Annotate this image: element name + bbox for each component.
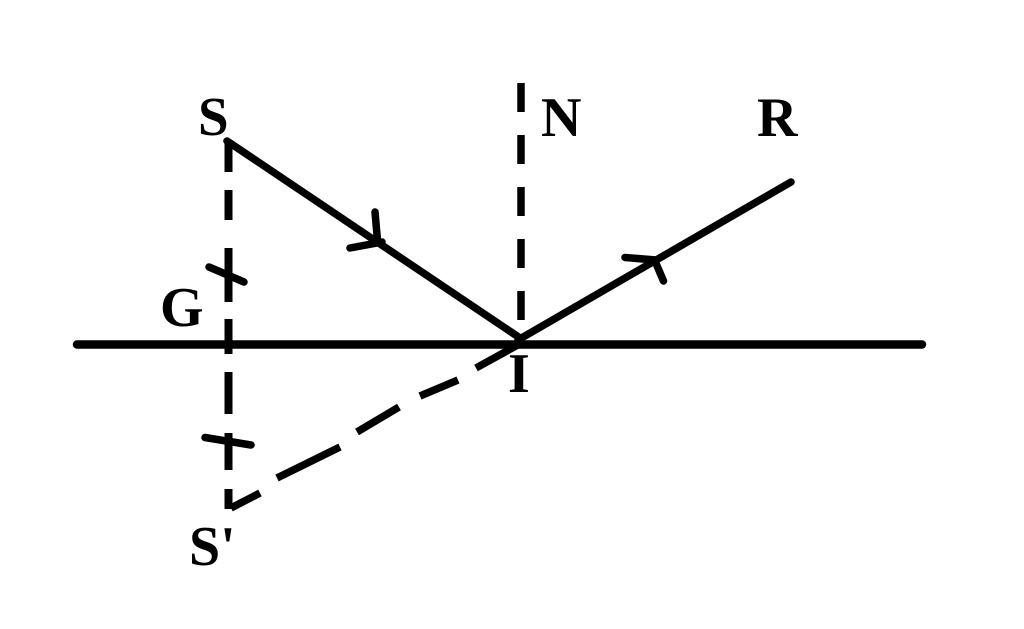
svg-text:G: G: [160, 277, 204, 339]
mirror surface line: [77, 340, 922, 349]
equal-distance tick above mirror: [209, 267, 244, 282]
svg-text:S: S: [198, 86, 229, 147]
svg-text:N: N: [541, 87, 581, 149]
dashed virtual ray S' to I (hand-drawn dashes): [231, 341, 525, 508]
normal dashed line N: [517, 83, 525, 332]
dashed perpendicular S to S' (hand-drawn dashes): [225, 142, 233, 509]
reflected ray arrowhead: [625, 258, 664, 282]
reflected ray I to R: [518, 182, 791, 340]
equal-distance tick below mirror: [205, 438, 251, 446]
svg-text:R: R: [757, 87, 798, 149]
incident ray S to I: [227, 141, 520, 338]
incident ray arrowhead: [350, 212, 382, 248]
svg-text:S': S': [189, 516, 236, 578]
